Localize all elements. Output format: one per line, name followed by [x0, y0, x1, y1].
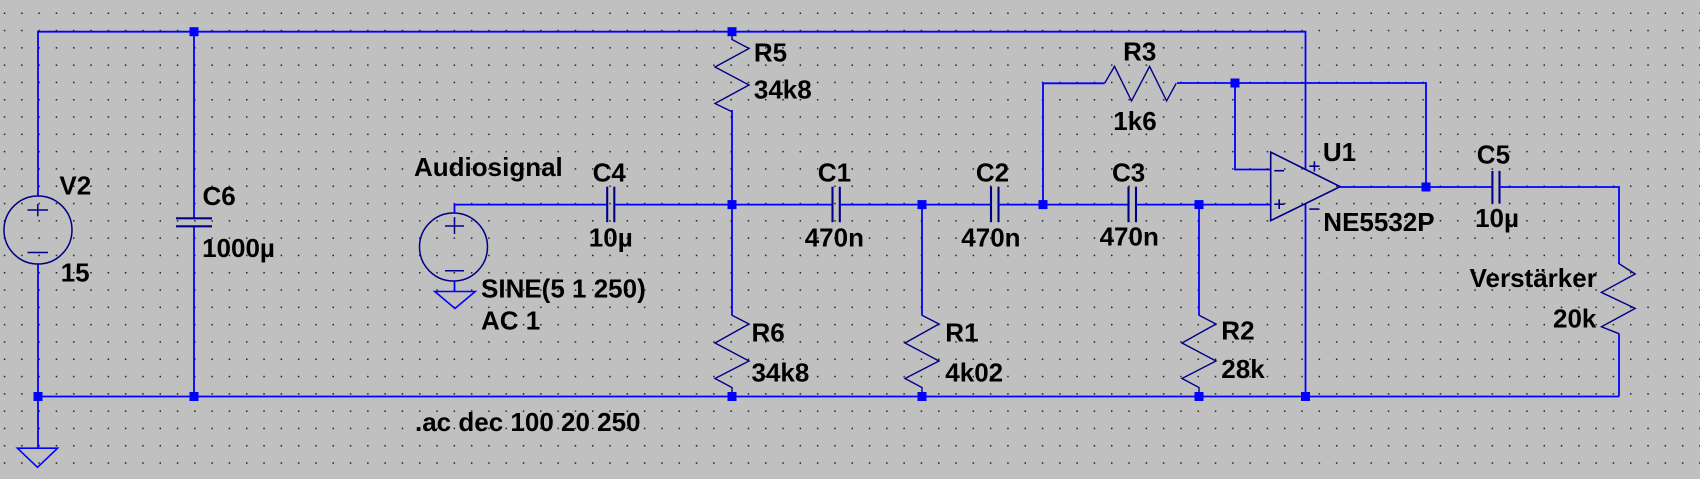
node junction output — [1422, 183, 1431, 192]
resistor R1 — [905, 315, 939, 396]
wire audio source top stub — [455, 205, 608, 213]
svg-text:NE5532P: NE5532P — [1323, 207, 1434, 237]
resistor R5 — [715, 35, 749, 112]
voltage source Audiosignal — [420, 213, 488, 281]
svg-text:28k: 28k — [1221, 354, 1265, 384]
node junction rail R2 — [1195, 392, 1204, 401]
svg-text:C5: C5 — [1477, 140, 1510, 170]
wire inverting branch — [1235, 83, 1271, 170]
resistor R6 — [715, 315, 749, 396]
svg-text:20k: 20k — [1553, 304, 1597, 334]
svg-text:AC 1: AC 1 — [481, 306, 540, 336]
wire node3 up to R3 — [1043, 83, 1105, 204]
wire C6 top — [193, 31, 195, 218]
svg-text:Verstärker: Verstärker — [1470, 263, 1597, 293]
wire R6 lead — [731, 205, 733, 316]
node junction signal R3 branch — [1039, 200, 1048, 209]
node junction rail R1 — [918, 392, 927, 401]
node junction signal R2 — [1195, 200, 1204, 209]
svg-text:10µ: 10µ — [1475, 203, 1519, 233]
svg-text:R2: R2 — [1221, 316, 1254, 346]
wire C2 to node3 — [999, 204, 1129, 206]
svg-text:R3: R3 — [1123, 37, 1156, 67]
svg-text:470n: 470n — [1100, 221, 1159, 251]
wire 20k bottom lead — [1618, 334, 1620, 397]
svg-text:R6: R6 — [752, 318, 785, 348]
wire top rail — [38, 31, 1306, 33]
node junction R3 inverting — [1231, 79, 1240, 88]
capacitor C1 — [833, 187, 840, 223]
capacitor C2 — [991, 187, 999, 223]
capacitor C3 — [1129, 187, 1137, 223]
ground — [17, 448, 57, 467]
wire V2 top — [37, 31, 39, 196]
svg-text:R1: R1 — [945, 318, 978, 348]
voltage source V2 — [4, 196, 72, 264]
node junction top C6 — [190, 27, 199, 36]
svg-text:470n: 470n — [805, 223, 864, 253]
svg-text:.ac dec 100 20 250: .ac dec 100 20 250 — [415, 407, 641, 437]
node junction top R5 — [728, 27, 737, 36]
node junction rail R6 — [728, 392, 737, 401]
wire C6 bottom — [193, 227, 195, 397]
capacitor C4 — [607, 187, 614, 223]
svg-text:C1: C1 — [818, 157, 851, 187]
wire R1 lead — [921, 205, 923, 316]
wire C5 to load — [1500, 187, 1620, 264]
wire V2 ground stub — [37, 397, 39, 449]
resistor Verstaerker 20k — [1601, 264, 1635, 334]
resistor R2 — [1182, 315, 1216, 396]
capacitor C5 — [1492, 171, 1499, 204]
resistor R3 — [1105, 66, 1177, 101]
svg-text:C6: C6 — [203, 181, 236, 211]
node junction rail C6 — [190, 392, 199, 401]
wire C1 to node2 — [840, 204, 991, 206]
wire V2 bottom — [37, 264, 39, 397]
wire R5 lead — [731, 110, 733, 205]
wire C3 to opamp — [1136, 204, 1271, 206]
svg-text:1000µ: 1000µ — [202, 233, 275, 263]
wire audio source ground stub — [454, 281, 456, 292]
svg-text:V2: V2 — [59, 171, 91, 201]
wire opamp output — [1340, 186, 1492, 188]
capacitor C6 — [176, 218, 212, 226]
svg-text:470n: 470n — [961, 222, 1020, 252]
svg-text:34k8: 34k8 — [754, 75, 812, 105]
svg-text:34k8: 34k8 — [752, 358, 810, 388]
svg-text:U1: U1 — [1323, 137, 1356, 167]
svg-text:10µ: 10µ — [589, 222, 633, 252]
node junction signal R1 — [918, 200, 927, 209]
node junction rail V2 — [34, 392, 43, 401]
wire C4 to node1 — [615, 204, 833, 206]
svg-text:4k02: 4k02 — [945, 358, 1003, 388]
svg-text:C3: C3 — [1112, 157, 1145, 187]
bottom rail — [38, 396, 1619, 398]
svg-text:R5: R5 — [754, 37, 787, 67]
wire opamp V- power — [1305, 204, 1307, 397]
svg-text:1k6: 1k6 — [1113, 106, 1156, 136]
wire R2 lead — [1198, 205, 1200, 316]
svg-text:Audiosignal: Audiosignal — [414, 152, 563, 182]
svg-text:C4: C4 — [593, 158, 627, 188]
svg-text:SINE(5 1 250): SINE(5 1 250) — [481, 274, 646, 304]
ground — [435, 292, 475, 309]
svg-text:C2: C2 — [976, 157, 1009, 187]
node junction signal R5/R6 — [728, 200, 737, 209]
node junction rail opamp — [1301, 392, 1310, 401]
op-amp U1 — [1271, 152, 1341, 221]
wire R3 right — [1177, 83, 1426, 187]
wire opamp V+ power — [1305, 31, 1307, 170]
svg-text:15: 15 — [61, 258, 90, 288]
